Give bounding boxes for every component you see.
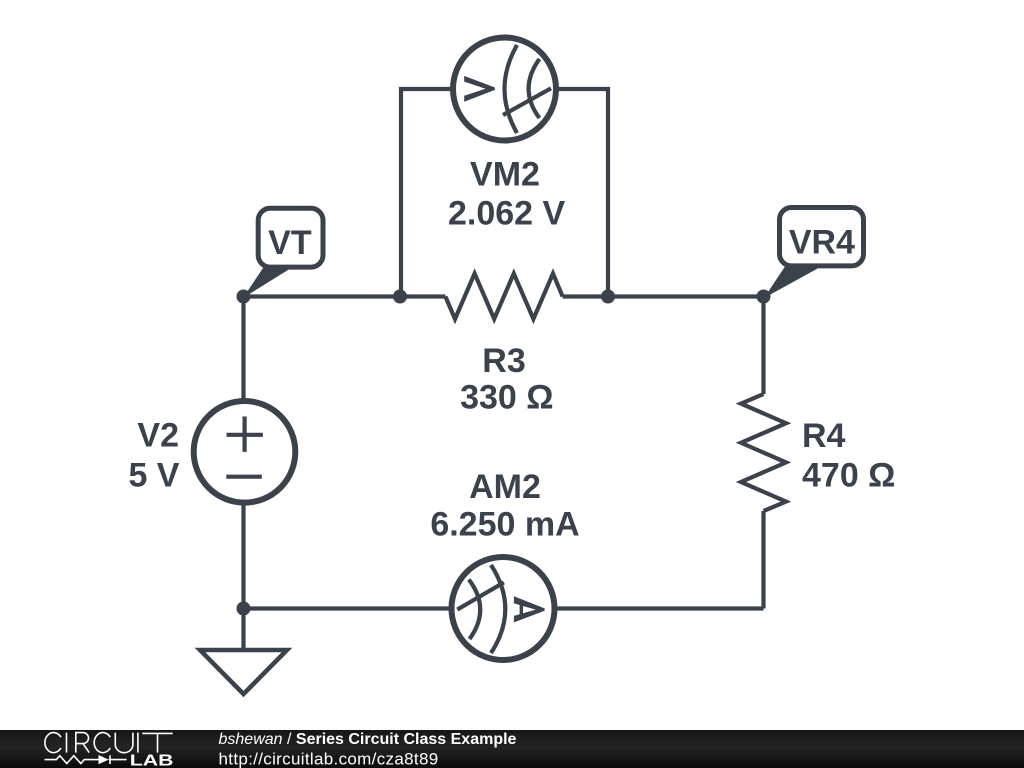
- svg-text:R3: R3: [482, 342, 525, 380]
- svg-text:http://circuitlab.com/cza8t89: http://circuitlab.com/cza8t89: [219, 750, 439, 768]
- svg-text:2.062 V: 2.062 V: [448, 195, 566, 233]
- svg-text:LAB: LAB: [130, 751, 174, 768]
- svg-text:bshewan / Series Circuit Class: bshewan / Series Circuit Class Example: [219, 731, 517, 748]
- svg-text:AM2: AM2: [469, 468, 541, 506]
- svg-text:VR4: VR4: [789, 224, 855, 262]
- svg-text:V2: V2: [137, 417, 179, 455]
- svg-text:6.250 mA: 6.250 mA: [430, 505, 579, 543]
- svg-text:330 Ω: 330 Ω: [460, 379, 553, 417]
- svg-text:470 Ω: 470 Ω: [802, 457, 895, 495]
- svg-text:VM2: VM2: [470, 156, 540, 194]
- svg-text:5 V: 5 V: [128, 456, 179, 494]
- svg-text:VT: VT: [268, 224, 312, 262]
- svg-text:R4: R4: [802, 417, 846, 455]
